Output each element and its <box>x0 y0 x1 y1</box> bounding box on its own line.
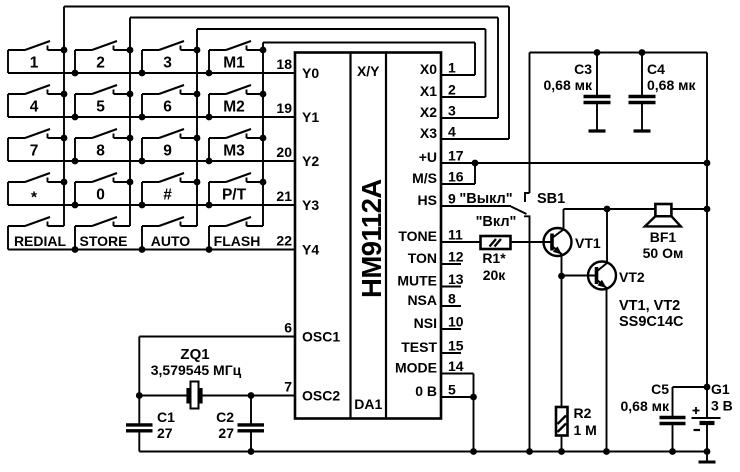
svg-text:TEST: TEST <box>401 339 437 355</box>
svg-text:C3: C3 <box>574 61 592 77</box>
wire VT2 base <box>562 275 597 277</box>
svg-text:Y1: Y1 <box>302 109 319 125</box>
switch SB1 pole wire from top rail <box>529 53 531 194</box>
wire keypad column 1 (X3 net) <box>61 7 68 227</box>
pushbutton key "7" <box>8 129 64 161</box>
wire VT1 emitter to R2 <box>561 276 563 407</box>
DA1 pin 5 0 В <box>415 382 473 400</box>
svg-text:18: 18 <box>276 56 292 72</box>
svg-text:20к: 20к <box>483 267 507 283</box>
switch SB1 upper contact <box>525 193 530 202</box>
wire top link column 1 to X3 pin <box>64 7 509 140</box>
wire row Y4 to pin 22 <box>8 246 295 253</box>
pushbutton key "#" <box>142 173 197 205</box>
svg-text:VT1: VT1 <box>575 235 601 251</box>
svg-text:9: 9 <box>163 143 172 160</box>
svg-text:SB1: SB1 <box>537 191 565 207</box>
svg-text:10: 10 <box>448 314 464 330</box>
wire MODE/0V tie and ground drop <box>470 374 477 455</box>
label "Выкл" <box>459 191 512 207</box>
svg-text:SS9C14C: SS9C14C <box>619 314 684 330</box>
crystal ZQ1 <box>188 382 201 409</box>
svg-text:X1: X1 <box>420 83 437 99</box>
DA1 pin 9 HS <box>418 191 511 209</box>
svg-text:X3: X3 <box>420 125 437 141</box>
DA1 pin 21 Y3 <box>276 188 319 213</box>
svg-text:7: 7 <box>284 379 292 395</box>
svg-text:TON: TON <box>408 250 437 266</box>
DA1 pin 12 TON <box>408 249 464 267</box>
wire R2 to ground <box>558 436 565 455</box>
wire M/S tie to +U <box>472 160 479 184</box>
svg-text:NSI: NSI <box>414 315 437 331</box>
DA1 pin 15 TEST <box>401 338 464 356</box>
transistor VT1 <box>544 228 572 256</box>
svg-text:6: 6 <box>163 99 172 116</box>
svg-text:9: 9 <box>448 191 456 207</box>
pushbutton key "*" <box>8 173 64 207</box>
svg-text:HM9112A: HM9112A <box>356 179 387 298</box>
pushbutton key "M2" <box>209 85 263 117</box>
pushbutton key "FLASH" <box>209 217 263 250</box>
svg-text:FLASH: FLASH <box>214 233 261 249</box>
svg-text:MODE: MODE <box>395 360 437 376</box>
label VT2 <box>619 269 645 285</box>
svg-text:TONE: TONE <box>398 228 437 244</box>
DA1 pin 13 MUTE <box>397 271 463 289</box>
battery G1 <box>692 407 721 455</box>
svg-text:20: 20 <box>276 144 292 160</box>
DA1 label X/Y <box>357 63 380 79</box>
wire VT2 collector up <box>604 206 611 263</box>
svg-text:DA1: DA1 <box>354 396 382 412</box>
switch SB1 lower contact <box>524 216 530 222</box>
label BF1 50 Ом <box>643 229 684 261</box>
DA1 pin 14 MODE <box>395 358 474 376</box>
svg-text:27: 27 <box>218 425 234 441</box>
svg-text:R1*: R1* <box>482 250 506 266</box>
svg-text:4: 4 <box>448 124 456 140</box>
svg-text:5: 5 <box>448 382 456 398</box>
pushbutton key "9" <box>142 129 197 161</box>
wire top link column 3 to X1 pin <box>197 29 486 97</box>
svg-text:13: 13 <box>448 271 464 287</box>
wire collector rail to BF1 <box>564 208 656 210</box>
svg-text:3: 3 <box>163 55 172 72</box>
svg-text:STORE: STORE <box>80 233 128 249</box>
wire VT1 emitter down <box>558 255 565 280</box>
capacitor C3 <box>584 53 611 132</box>
svg-text:1: 1 <box>448 60 456 76</box>
label VT1 <box>575 235 601 251</box>
label G1 3 В <box>711 381 733 414</box>
label SB1 <box>537 191 565 207</box>
DA1 pin 2 X1 <box>420 82 486 100</box>
wire SB1 Vkl to ground rail <box>526 222 533 455</box>
label C1 27 <box>157 409 175 441</box>
svg-text:REDIAL: REDIAL <box>14 233 67 249</box>
svg-text:C5: C5 <box>651 381 669 397</box>
DA1 pin 22 Y4 <box>276 233 319 258</box>
svg-text:X0: X0 <box>420 61 437 77</box>
capacitor C2 <box>238 396 265 455</box>
svg-text:C2: C2 <box>216 409 234 425</box>
wire right rail (+U) <box>704 53 711 418</box>
DA1 pin 3 X2 <box>420 103 498 121</box>
wire VT2 emitter to ground <box>603 288 610 455</box>
svg-text:M3: M3 <box>223 143 245 160</box>
svg-text:14: 14 <box>448 358 464 374</box>
DA1 pin 8 NSA <box>407 291 461 309</box>
svg-text:0,68 мк: 0,68 мк <box>543 77 592 93</box>
svg-text:0 В: 0 В <box>415 383 437 399</box>
resistor R2 <box>556 407 568 436</box>
ground terminal <box>699 452 716 463</box>
transistor VT2 <box>588 262 616 290</box>
svg-text:M1: M1 <box>223 55 245 72</box>
label C3 0,68 мк <box>543 61 592 93</box>
svg-text:NSA: NSA <box>407 292 437 308</box>
DA1 pin 11 TONE <box>398 227 480 245</box>
svg-text:M/S: M/S <box>412 170 437 186</box>
svg-text:7: 7 <box>30 143 39 160</box>
svg-text:X/Y: X/Y <box>357 63 380 79</box>
DA1 pin 7 OSC2 <box>284 379 340 404</box>
svg-text:5: 5 <box>96 99 105 116</box>
svg-text:Y4: Y4 <box>302 242 319 258</box>
pushbutton key "2" <box>75 41 130 73</box>
svg-text:#: # <box>163 187 172 204</box>
svg-text:3 В: 3 В <box>711 398 733 414</box>
svg-text:"Выкл": "Выкл" <box>459 191 512 207</box>
svg-text:3,579545 МГц: 3,579545 МГц <box>151 362 242 378</box>
label VT1, VT2 SS9C14C <box>619 298 684 330</box>
svg-text:*: * <box>31 190 38 207</box>
svg-text:AUTO: AUTO <box>151 233 191 249</box>
pushbutton key "0" <box>75 173 130 205</box>
DA1 pin 4 X3 <box>420 124 509 142</box>
wire top +U rail <box>530 49 708 56</box>
svg-text:12: 12 <box>448 249 464 265</box>
svg-text:11: 11 <box>448 227 463 243</box>
svg-text:27: 27 <box>157 425 173 441</box>
svg-text:8: 8 <box>448 291 456 307</box>
wire ground rail <box>139 451 707 453</box>
svg-text:0: 0 <box>96 187 105 204</box>
svg-text:19: 19 <box>276 100 292 116</box>
DA1 label DA1 <box>354 396 382 412</box>
wire row Y2 to pin 20 <box>8 158 295 165</box>
svg-text:HS: HS <box>418 192 437 208</box>
wire keypad column 2 (X2 net) <box>127 18 134 227</box>
wire crystal line to OSC2 <box>139 392 295 399</box>
svg-text:Y2: Y2 <box>302 153 319 169</box>
pushbutton key "1" <box>8 41 64 73</box>
svg-text:OSC1: OSC1 <box>302 329 340 345</box>
svg-text:0,68 мк: 0,68 мк <box>620 398 669 414</box>
capacitor C1 <box>126 396 153 452</box>
label ZQ1 3,579545 МГц <box>151 346 242 378</box>
pushbutton key "6" <box>142 85 197 117</box>
svg-text:1: 1 <box>30 55 39 72</box>
wire VT1 collector up <box>563 209 565 230</box>
pushbutton key "REDIAL" <box>8 217 66 250</box>
DA1 pin 17 +U <box>419 148 707 166</box>
wire +U rail (pin 17 to right rail) <box>441 160 710 167</box>
svg-text:1 М: 1 М <box>574 422 597 438</box>
svg-text:"Вкл": "Вкл" <box>476 214 517 230</box>
resistor R1 <box>481 236 511 249</box>
svg-text:Y3: Y3 <box>302 197 319 213</box>
svg-text:OSC2: OSC2 <box>302 388 340 404</box>
pushbutton key "M3" <box>209 129 263 161</box>
DA1 pin 18 Y0 <box>276 56 319 81</box>
svg-text:X2: X2 <box>420 104 437 120</box>
DA1 pin 1 X0 <box>420 60 475 78</box>
DA1 pin 20 Y2 <box>276 144 319 169</box>
pushbutton key "AUTO" <box>142 217 197 250</box>
wire row Y1 to pin 19 <box>8 114 295 121</box>
pushbutton key "5" <box>75 85 130 117</box>
svg-text:3: 3 <box>448 103 456 119</box>
svg-text:C4: C4 <box>647 61 665 77</box>
svg-text:G1: G1 <box>711 381 730 397</box>
DA1 pin 10 NSI <box>414 314 464 332</box>
svg-text:8: 8 <box>96 143 105 160</box>
svg-text:2: 2 <box>96 55 105 72</box>
pushbutton key "M1" <box>209 41 263 73</box>
svg-text:VT1, VT2: VT1, VT2 <box>619 298 680 314</box>
wire top link column 4 to X0 pin <box>263 43 475 76</box>
wire row Y3 to pin 21 <box>8 202 295 209</box>
DA1 label HM9112A <box>356 179 387 298</box>
svg-text:2: 2 <box>448 82 456 98</box>
wire TONE to VT1 base <box>511 241 552 243</box>
label R1* 20к <box>482 250 506 283</box>
pushbutton key "STORE" <box>75 217 130 250</box>
label C2 27 <box>216 409 234 441</box>
svg-text:17: 17 <box>448 148 464 164</box>
svg-text:C1: C1 <box>157 409 175 425</box>
svg-text:VT2: VT2 <box>619 269 645 285</box>
wire top link column 2 to X2 pin <box>130 18 498 119</box>
IC DA1 HM9112A body <box>295 53 441 419</box>
pushbutton key "8" <box>75 129 130 161</box>
wire keypad column 3 (X1 net) <box>194 29 201 226</box>
DA1 pin 16 M/S <box>412 169 475 187</box>
loudspeaker BF1 <box>645 204 681 226</box>
svg-text:+U: +U <box>419 149 437 165</box>
svg-text:22: 22 <box>276 233 292 249</box>
svg-text:50 Ом: 50 Ом <box>643 245 684 261</box>
pushbutton key "P/T" <box>209 173 263 205</box>
svg-text:Y0: Y0 <box>302 65 319 81</box>
wire BF1 to right rail <box>672 208 708 210</box>
DA1 pin 19 Y1 <box>276 100 319 125</box>
label C4 0,68 мк <box>647 61 696 93</box>
svg-text:21: 21 <box>276 188 292 204</box>
svg-text:4: 4 <box>30 99 39 116</box>
label "Вкл" <box>476 214 517 230</box>
svg-text:16: 16 <box>448 169 464 185</box>
capacitor C5 <box>660 387 708 455</box>
svg-text:M2: M2 <box>223 99 245 116</box>
svg-text:15: 15 <box>448 338 464 354</box>
svg-text:R2: R2 <box>574 405 592 421</box>
label R2 1 М <box>574 405 597 438</box>
svg-text:BF1: BF1 <box>650 229 677 245</box>
svg-text:ZQ1: ZQ1 <box>180 346 209 363</box>
wire row Y0 to pin 18 <box>8 70 295 77</box>
capacitor C4 <box>629 53 656 132</box>
svg-text:6: 6 <box>284 320 292 336</box>
svg-text:P/T: P/T <box>222 187 247 204</box>
pushbutton key "4" <box>8 85 64 117</box>
svg-text:0,68 мк: 0,68 мк <box>647 77 696 93</box>
switch SB1 blade <box>511 207 527 215</box>
wire keypad column 4 (X0 net) <box>260 43 267 227</box>
label C5 0,68 мк <box>620 381 669 414</box>
DA1 pin 6 OSC1 <box>284 320 340 345</box>
svg-text:MUTE: MUTE <box>397 273 437 289</box>
wire OSC1 to crystal <box>136 337 295 399</box>
pushbutton key "3" <box>142 41 197 73</box>
